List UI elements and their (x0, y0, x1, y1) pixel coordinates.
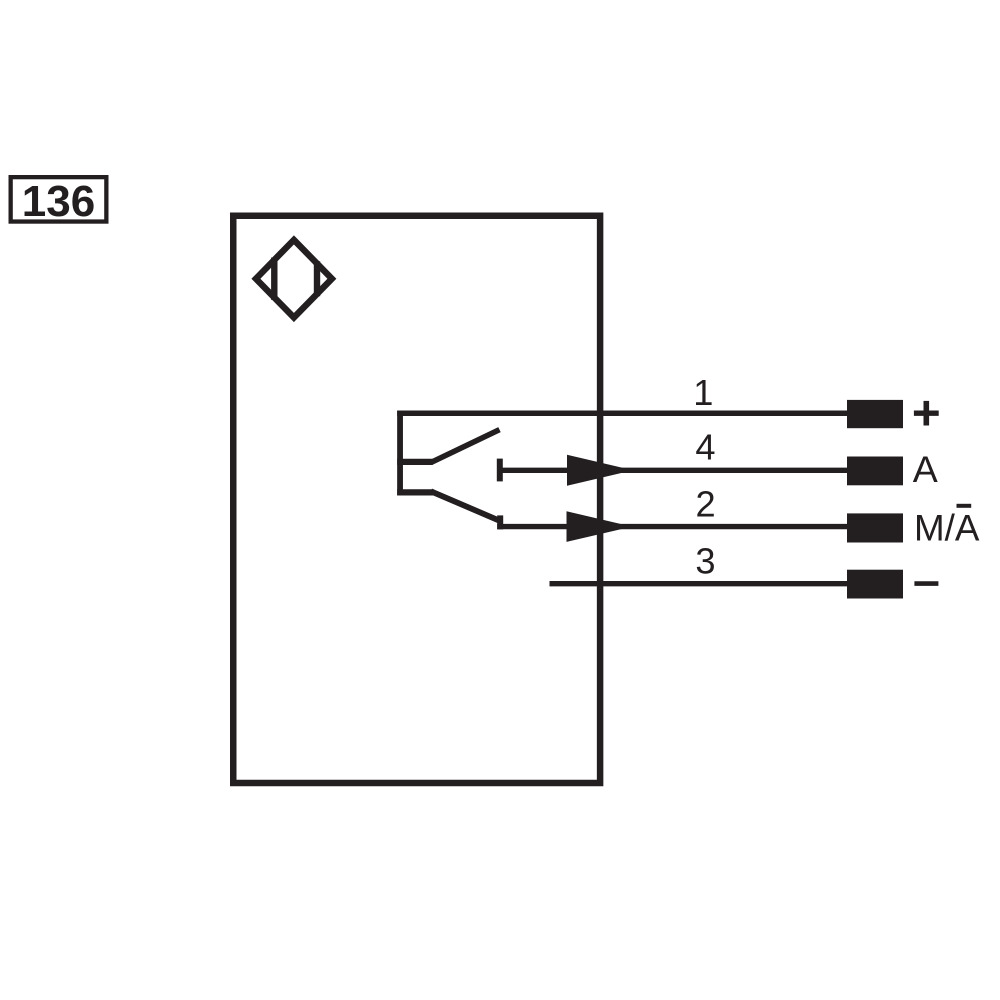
label + (supply) (914, 411, 939, 416)
switch S1 lower pole stub (397, 489, 433, 495)
arrow on wire pin2 (567, 511, 633, 542)
label - (ground) (914, 581, 938, 586)
svg-text:2: 2 (696, 484, 716, 525)
wire pin2 (M/A-bar) (497, 524, 851, 529)
wire pin3 (-) (550, 581, 852, 586)
wire pin4 (A) (500, 468, 851, 473)
sensor symbol U1: left chord (271, 258, 277, 300)
terminal block pin3 (847, 570, 903, 599)
wire pin2 start T-bar (497, 515, 503, 529)
sensor symbol U1: diamond (256, 240, 332, 318)
terminal block pin1 (847, 400, 903, 428)
svg-text:A: A (913, 448, 938, 490)
sensor body rectangle (233, 216, 600, 783)
wire: switch common vertical (397, 411, 403, 496)
terminal block pin4 (847, 457, 903, 486)
svg-text:4: 4 (695, 427, 715, 468)
sensor symbol U1: right chord (314, 261, 320, 296)
svg-text:M/A: M/A (914, 508, 980, 549)
arrow on wire pin4 (567, 455, 633, 486)
figure number box 136 (11, 177, 107, 221)
overbar of A in M/A-bar (957, 504, 972, 508)
wire pin4 start T-bar (497, 459, 503, 482)
switch S1 blade (open contact) (431, 430, 499, 463)
terminal block pin2 (847, 513, 903, 542)
wire: diagonal to pin2 (431, 491, 500, 521)
switch S1 upper pole stub (397, 459, 433, 465)
svg-text:136: 136 (22, 177, 95, 226)
svg-text:1: 1 (693, 372, 713, 413)
svg-text:3: 3 (695, 541, 715, 582)
wire pin1 (+) (397, 411, 851, 416)
